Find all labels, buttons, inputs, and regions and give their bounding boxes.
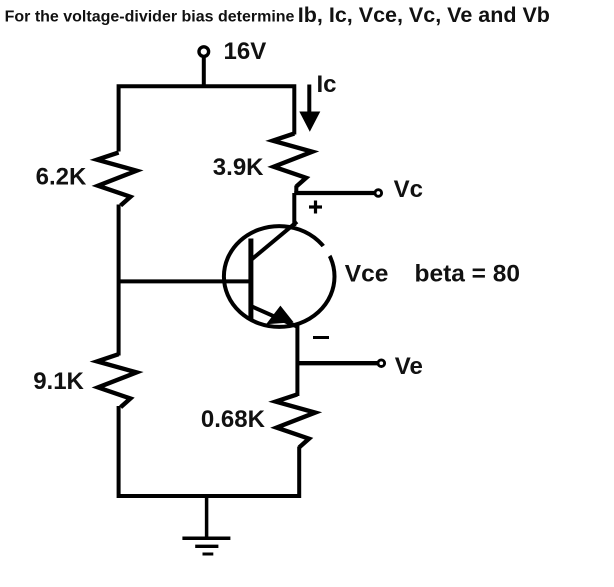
wire emitter vertical (295, 324, 299, 396)
plus sign (309, 201, 322, 214)
wire left mid rail (117, 205, 121, 356)
ground stem (205, 496, 209, 538)
svg-text:3.9K: 3.9K (213, 154, 264, 181)
transistor body circle (224, 226, 335, 327)
wire collector node to Vc terminal (294, 191, 375, 195)
emitter arrow (266, 306, 294, 325)
svg-text:Ve: Ve (395, 353, 423, 380)
ground bar 2 (195, 545, 218, 548)
supply terminal 16V (199, 47, 209, 57)
resistor R3 9.1K (97, 354, 137, 407)
wire collector vertical (294, 186, 296, 227)
svg-text:16V: 16V (224, 38, 267, 65)
emitter diagonal (252, 306, 298, 327)
collector diagonal (252, 222, 298, 260)
base bar (248, 239, 253, 320)
wire base (119, 279, 251, 283)
ground bar 1 (182, 537, 230, 541)
ground bar 3 (203, 553, 214, 556)
wire supply stem (202, 56, 206, 88)
current arrow Ic (299, 85, 320, 132)
transistor Q1 (224, 222, 335, 327)
svg-text:For the voltage-divider bias d: For the voltage-divider bias determine (5, 9, 295, 26)
wire lower left rail, bottom bus, emitter resistor lead (119, 406, 300, 496)
minus sign (313, 336, 329, 339)
wire top bus with left and right rails (119, 86, 295, 151)
resistor R2 3.9K (273, 134, 313, 187)
wire emitter node to Ve terminal (297, 361, 378, 365)
ground (182, 496, 230, 554)
terminal Ve (378, 360, 385, 367)
svg-text:beta = 80: beta = 80 (415, 261, 521, 288)
terminal Vc (375, 190, 382, 197)
circle gap upper right (324, 246, 331, 256)
svg-text:9.1K: 9.1K (33, 368, 84, 395)
resistor R1 6.2K (97, 153, 137, 206)
resistor R4 0.68K (276, 394, 316, 447)
svg-text:Ib, Ic, Vce, Vc, Ve and Vb: Ib, Ic, Vce, Vc, Ve and Vb (298, 3, 550, 27)
svg-text:Ic: Ic (317, 71, 337, 98)
svg-text:Vce: Vce (345, 261, 389, 288)
svg-text:0.68K: 0.68K (201, 406, 266, 433)
svg-text:Vc: Vc (394, 176, 423, 203)
svg-text:6.2K: 6.2K (36, 164, 87, 191)
